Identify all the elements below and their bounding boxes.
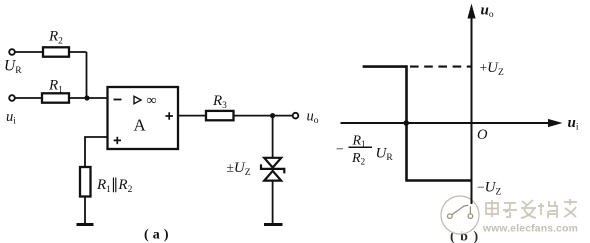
y axis arrowhead — [467, 4, 475, 19]
zener bar — [261, 164, 284, 173]
wire — [272, 181, 274, 224]
svg-text:−: − — [336, 143, 344, 158]
transfer curve high level — [363, 65, 407, 68]
op-amp A — [108, 87, 179, 149]
node output junction — [270, 113, 275, 118]
wire — [234, 115, 293, 117]
x axis arrowhead — [548, 119, 563, 127]
wire — [178, 115, 206, 117]
watermark key icon — [448, 205, 473, 218]
label -R1/R2 UR threshold — [336, 134, 393, 167]
svg-text:www.elecfans.com: www.elecfans.com — [482, 224, 578, 235]
svg-text:∞: ∞ — [147, 93, 157, 108]
op-amp output plus sign — [166, 112, 173, 119]
terminal u_o — [293, 113, 299, 119]
wire — [69, 51, 87, 53]
watermark text dianzifashaoyou (simplified strokes) — [486, 199, 577, 218]
wire — [84, 197, 86, 224]
zener diode +/-Uz top — [264, 158, 281, 168]
transfer curve low level — [407, 179, 472, 182]
wire — [86, 52, 88, 98]
terminal u_i — [9, 95, 15, 101]
resistor R2 — [43, 47, 69, 56]
op-amp plus input sign — [114, 137, 121, 144]
dashed level +Uz — [410, 66, 472, 68]
resistor R1 — [42, 93, 69, 102]
ground — [77, 223, 94, 226]
op-amp minus input sign — [114, 99, 122, 101]
resistor R3 — [206, 111, 234, 120]
svg-text:A: A — [134, 116, 147, 135]
op-amp triangle symbol — [134, 96, 141, 103]
wire — [85, 137, 108, 167]
resistor R1||R2 — [80, 167, 91, 197]
node junction R1/R2 — [84, 95, 89, 100]
terminal U_R — [9, 49, 15, 55]
wire — [272, 116, 274, 158]
x axis u_i — [341, 122, 551, 124]
wire — [69, 97, 108, 99]
y axis u_o — [471, 15, 473, 204]
zener diode bottom — [264, 171, 281, 181]
svg-text:( a ): ( a ) — [144, 228, 169, 243]
node threshold dot — [403, 120, 409, 126]
svg-text:R1∥R2: R1∥R2 — [96, 177, 133, 195]
watermark logo circle — [441, 196, 479, 234]
ground — [264, 223, 283, 226]
transfer curve transition — [405, 65, 408, 181]
wire — [15, 97, 42, 99]
wire — [15, 51, 43, 53]
svg-text:O: O — [477, 127, 488, 143]
y axis lower segment over logo — [471, 190, 473, 204]
